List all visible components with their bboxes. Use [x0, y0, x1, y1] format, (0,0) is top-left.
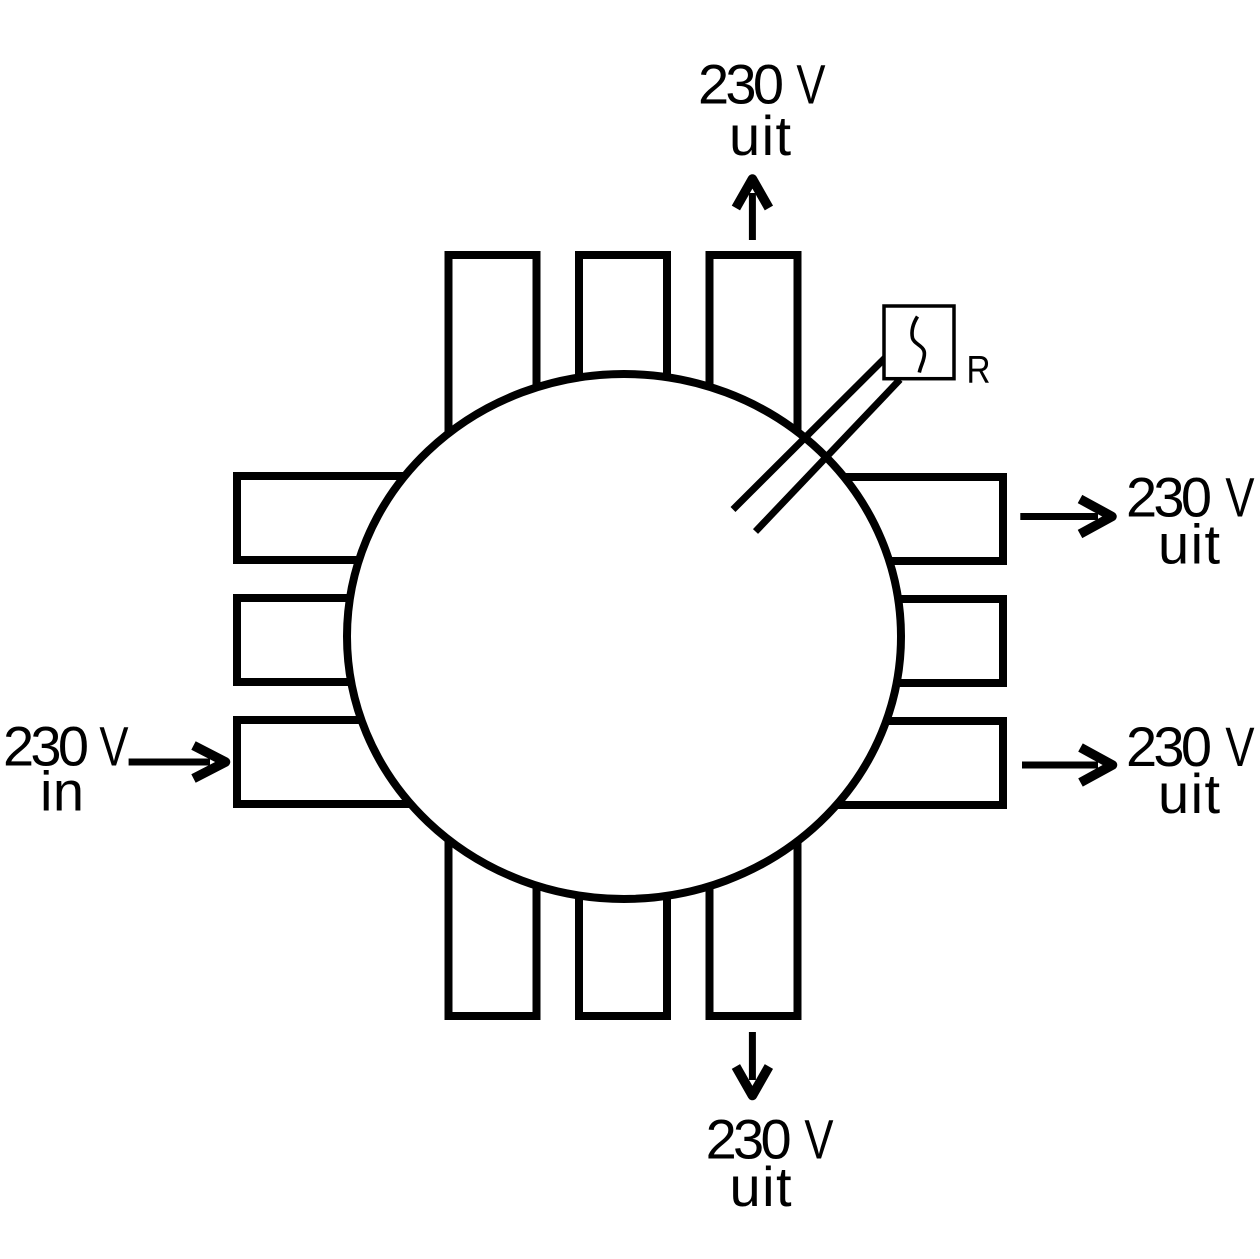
svg-text:V: V: [1225, 466, 1255, 528]
svg-text:V: V: [804, 1108, 834, 1170]
svg-text:in: in: [40, 760, 84, 823]
svg-text:V: V: [99, 716, 129, 778]
svg-text:V: V: [796, 53, 826, 115]
svg-text:V: V: [1225, 716, 1255, 778]
svg-text:R: R: [967, 349, 991, 392]
